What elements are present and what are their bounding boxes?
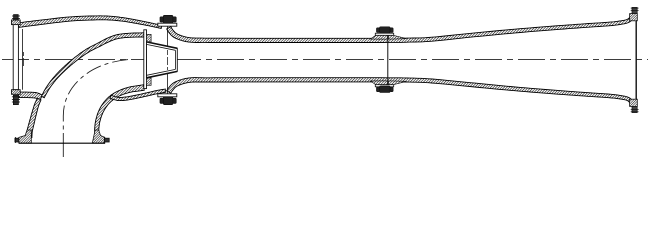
nozzle cone (147, 42, 178, 78)
chamber bottom wall left (18, 92, 42, 100)
elbow outer wall arc to nozzle (41, 33, 143, 98)
right flange bottom stud (631, 106, 639, 112)
bottom flange left foot (19, 130, 32, 143)
elbow axis centerline (63, 60, 128, 132)
middle flange top washer (375, 33, 393, 35)
joint flange face line (166, 26, 168, 46)
bottom flange left stud (15, 137, 19, 143)
left flange top stud (12, 15, 20, 20)
right flange top hatched block (630, 14, 638, 21)
elbow inner wall arc (95, 85, 145, 138)
right outlet flange face line (635, 14, 637, 107)
middle flange bottom bolt (377, 86, 394, 92)
joint flange top plates (158, 23, 177, 26)
nozzle collar hatch top (147, 34, 152, 41)
right flange bottom hatched block (630, 99, 638, 106)
joint flange bottom bolt (160, 97, 176, 105)
left flange hub face line (22, 29, 24, 90)
body bottom wall (167, 78, 633, 104)
middle flange bottom collars (371, 81, 388, 85)
left flange bottom stud (12, 95, 20, 104)
joint flange top bolt (160, 15, 176, 23)
main horizontal centerline (2, 59, 648, 61)
bottom flange right foot (92, 130, 105, 143)
middle flange bottom washer (375, 85, 393, 87)
nozzle base ring (144, 30, 147, 89)
flange hub centerline cross tick (23, 52, 25, 68)
middle flange top bolt (377, 27, 394, 33)
joint flange bottom plates (158, 94, 177, 97)
nozzle centerline tick (167, 50, 169, 70)
middle flange top collars (371, 35, 388, 39)
chamber top wall (18, 16, 162, 29)
middle flange joint line (387, 35, 389, 84)
elbow outer wall descending (26, 98, 41, 137)
left inlet flange bar (12, 20, 21, 94)
bottom flange right stud (104, 137, 109, 143)
nozzle collar hatch bottom (147, 78, 152, 85)
right flange top stud (631, 7, 639, 13)
bottom flange face line (19, 142, 105, 144)
body top wall (167, 16, 633, 42)
chamber bottom wall right (110, 89, 166, 101)
